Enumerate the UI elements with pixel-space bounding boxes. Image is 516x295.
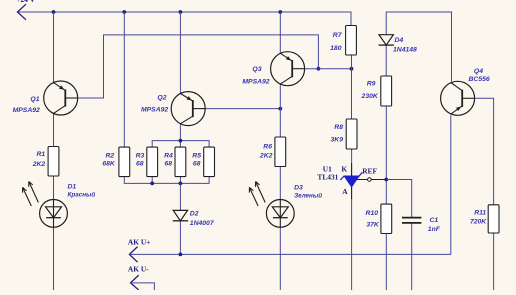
svg-text:Q4: Q4 <box>474 68 483 75</box>
transistor Q4 <box>441 81 475 115</box>
node junction Q1base-Q3base <box>317 67 321 71</box>
wire Q4 base to R11 <box>475 98 494 205</box>
resistor R4 68 <box>175 147 186 177</box>
resistor R1 2K2 <box>48 147 59 177</box>
svg-text:R11: R11 <box>474 209 486 216</box>
LED D3 green <box>279 200 281 228</box>
wire R10 bottom down <box>385 234 387 291</box>
wire R8 to U1 cathode <box>351 149 353 176</box>
transistor Q1 <box>44 81 78 115</box>
wire bus above R3 R4 R5 <box>152 141 209 148</box>
diode D2 1N4007 <box>173 210 187 220</box>
node REF pin ring <box>368 178 372 182</box>
svg-text:D2: D2 <box>190 211 199 218</box>
wire Q1 collector to R1 <box>53 113 55 146</box>
svg-text:R3: R3 <box>136 153 145 160</box>
svg-text:C1: C1 <box>430 217 439 224</box>
svg-text:R10: R10 <box>366 210 379 217</box>
resistor R3 68 <box>147 147 158 177</box>
svg-text:2K2: 2K2 <box>32 161 46 168</box>
resistor R2 68K <box>119 147 130 177</box>
node AK U+ arrow <box>129 247 137 263</box>
svg-text:Q3: Q3 <box>252 66 261 73</box>
svg-text:A: A <box>342 187 348 196</box>
svg-text:R1: R1 <box>36 151 45 158</box>
svg-text:Зеленый: Зеленый <box>294 192 322 200</box>
svg-text:R2: R2 <box>105 153 114 160</box>
svg-text:MPSA92: MPSA92 <box>13 107 40 114</box>
node junction rail-Q1 <box>52 10 56 14</box>
svg-text:68: 68 <box>193 160 201 167</box>
resistor R10 37K <box>381 204 392 233</box>
svg-text:68K: 68K <box>102 160 116 167</box>
svg-text:R6: R6 <box>263 144 272 151</box>
node junction bus-R4 <box>179 139 183 143</box>
transistor Q3 <box>271 52 305 86</box>
wire Q3 collector to R6 <box>279 84 281 137</box>
node junction rail-Q3 <box>278 10 282 14</box>
wire D2 cathode to AKU+ <box>179 221 181 254</box>
svg-text:180: 180 <box>330 45 342 52</box>
svg-text:3K9: 3K9 <box>331 137 344 144</box>
wire +24V rail corner into R7 <box>350 12 352 26</box>
wire Q2 emitter to rail <box>179 12 181 94</box>
node junction rail-Q2 <box>179 10 183 14</box>
wire C1 bottom down <box>411 224 413 290</box>
wire AK U- line <box>131 283 155 290</box>
svg-text:D3: D3 <box>294 184 303 191</box>
node AK U- arrow <box>131 275 139 290</box>
node junction bottombus-R3 <box>150 182 154 186</box>
svg-text:MPSA92: MPSA92 <box>242 79 269 86</box>
wire Q2 base to Q3 collector <box>205 108 280 110</box>
svg-text:2K2: 2K2 <box>259 152 273 159</box>
svg-text:37K: 37K <box>366 222 380 229</box>
svg-text:R4: R4 <box>164 153 173 160</box>
svg-text:MPSA92: MPSA92 <box>141 106 168 113</box>
svg-text:+24 V: +24 V <box>16 0 36 4</box>
svg-text:AK U+: AK U+ <box>128 237 150 246</box>
diode D4 1N4148 <box>379 35 393 45</box>
wire R7 bottom to R8 top <box>351 55 353 119</box>
wire Q2 collector to R3R4R5 bus <box>179 124 181 141</box>
node +24V arrow <box>17 4 26 20</box>
wire R1 to D1 <box>53 176 55 200</box>
svg-text:TL431: TL431 <box>317 172 338 181</box>
svg-text:R5: R5 <box>192 153 201 160</box>
svg-text:BC556: BC556 <box>469 76 490 83</box>
wire R6 to D3 <box>279 167 281 200</box>
wire +24V rail <box>17 11 351 13</box>
resistor R8 3K9 <box>346 119 357 149</box>
node junction R7-R8-Q3base <box>350 67 354 71</box>
svg-text:AK U-: AK U- <box>128 265 149 274</box>
svg-text:K: K <box>341 164 347 173</box>
wire Q3 emitter to rail <box>279 12 281 53</box>
svg-text:D1: D1 <box>68 184 77 191</box>
node junction Q2base-Q3coll <box>278 107 282 111</box>
wire D1 cathode down <box>53 227 55 290</box>
resistor R9 230K <box>381 76 392 106</box>
capacitor C1 1nF <box>402 217 421 219</box>
resistor R7 180 <box>346 26 357 56</box>
svg-text:1N4148: 1N4148 <box>393 47 417 54</box>
svg-text:1nF: 1nF <box>428 226 441 233</box>
wire D3 cathode down <box>279 227 281 290</box>
svg-text:Красный: Красный <box>68 190 96 198</box>
wire R11 bottom down <box>493 233 495 290</box>
node junction bottombus-D2 <box>179 182 183 186</box>
wire Q1 emitter to rail <box>53 12 55 83</box>
wire D4 cathode to R9 <box>385 45 387 76</box>
svg-text:R9: R9 <box>367 81 376 88</box>
node junction rail-R2 <box>122 10 126 14</box>
resistor R5 68 <box>204 147 215 177</box>
svg-text:D4: D4 <box>395 37 404 44</box>
svg-text:230K: 230K <box>361 93 379 100</box>
transistor Q2 <box>171 92 205 126</box>
wire U1 REF to C1 <box>355 179 386 181</box>
wire Q1 base loop to Q3 base <box>78 35 319 98</box>
wire Q3 base to R7 bottom <box>305 68 352 70</box>
wire bottom bus to D2 anode <box>179 183 181 210</box>
svg-text:Q1: Q1 <box>30 96 39 103</box>
wire D4 top net <box>386 12 451 81</box>
wire bus below R2 R3 R4 R5 <box>124 177 209 184</box>
resistor R6 2K2 <box>275 137 286 167</box>
svg-text:68: 68 <box>164 160 172 167</box>
node junction REF-R9R10 <box>384 178 388 182</box>
svg-text:68: 68 <box>136 160 144 167</box>
LED D1 red <box>53 200 55 228</box>
wire R9 to R10 <box>385 106 387 204</box>
svg-text:R7: R7 <box>333 32 343 39</box>
wire R2 top to rail <box>123 12 125 147</box>
resistor R11 720K <box>488 205 499 233</box>
svg-text:1N4007: 1N4007 <box>190 220 215 227</box>
op-amp U1 TL431 <box>345 177 359 187</box>
wire U1 anode down <box>351 187 353 290</box>
node junction AKU+-D2 <box>179 253 183 257</box>
wire AK U+ line to Q4 emitter <box>129 115 450 254</box>
svg-text:720K: 720K <box>470 218 487 225</box>
svg-text:Q2: Q2 <box>157 94 166 101</box>
svg-text:REF: REF <box>362 167 377 176</box>
svg-text:R8: R8 <box>334 124 343 131</box>
